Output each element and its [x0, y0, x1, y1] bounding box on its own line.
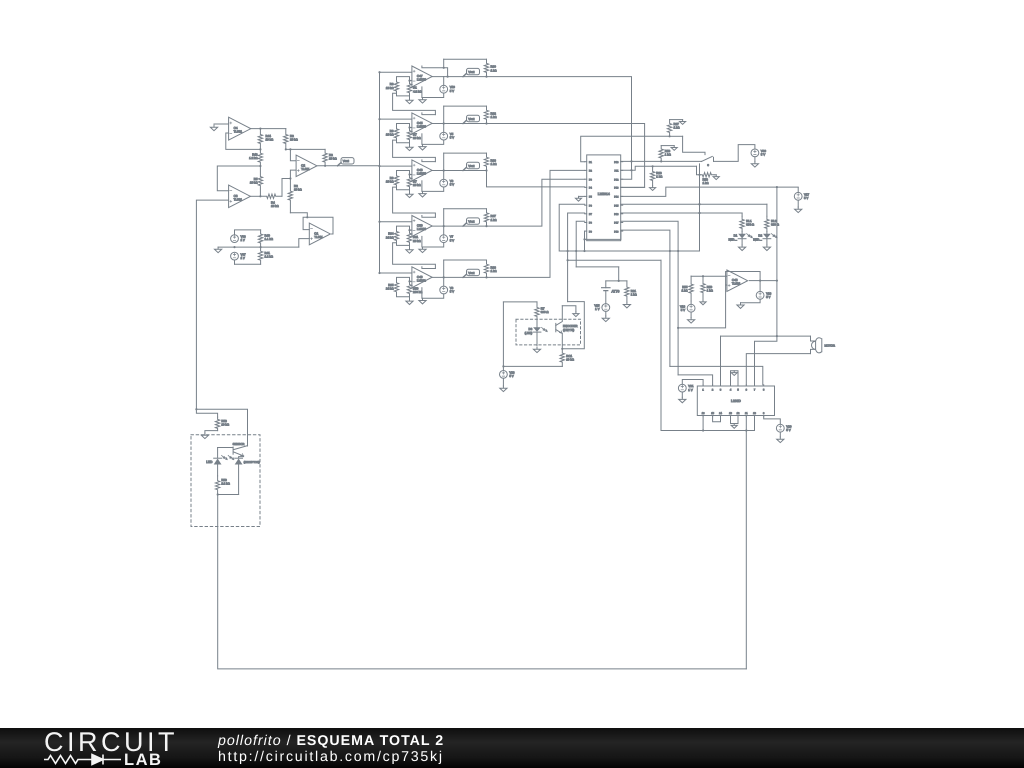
wire O3 + long left wire	[196, 200, 228, 409]
LED D1	[738, 234, 746, 239]
svg-text:10 kΩ: 10 kΩ	[294, 188, 302, 192]
pin B8 stub	[763, 416, 765, 417]
svg-text:NZD…: NZD…	[753, 237, 762, 241]
pin B5 stub	[737, 416, 739, 417]
pin 2L stub	[585, 169, 587, 171]
wire switch to V30	[714, 145, 755, 162]
LED branch RL2	[766, 204, 768, 216]
pin 1R stub	[621, 161, 623, 163]
wire block1 pull-up rail	[444, 58, 487, 60]
wire block5 opamp vee	[421, 288, 423, 299]
wire pin1B	[702, 417, 704, 431]
svg-text:Vout: Vout	[343, 159, 349, 163]
node bus tap 5	[378, 272, 380, 274]
wire pin8R down	[621, 221, 678, 375]
node bus tap 4	[378, 221, 380, 223]
ground collector	[573, 312, 579, 317]
wire pin6T to speaker bottom	[746, 354, 810, 385]
svg-text:1.1 kΩ: 1.1 kΩ	[265, 237, 274, 241]
resistor R5	[258, 166, 262, 196]
node block2 out	[443, 122, 445, 124]
ground V20	[777, 437, 784, 443]
resistor R7	[407, 175, 411, 190]
pin 2R stub	[621, 169, 623, 171]
node sources mid	[233, 246, 235, 248]
resistor R55	[689, 276, 693, 301]
wire V17 riser down to speaker net	[776, 187, 778, 336]
wire block3 - input	[410, 174, 412, 176]
voltage source V21 branch	[682, 380, 703, 385]
wire V20 bottom	[779, 432, 781, 437]
node R28 top	[652, 165, 654, 167]
ground V18	[688, 318, 695, 324]
svg-text:10 kΩ: 10 kΩ	[413, 239, 421, 243]
LED branch RL1	[741, 213, 743, 216]
svg-text:TL081: TL081	[234, 130, 243, 134]
svg-text:24 kΩ: 24 kΩ	[386, 235, 394, 239]
wire collector to ground	[562, 306, 576, 312]
svg-text:Vout: Vout	[468, 117, 474, 121]
svg-text:TL081: TL081	[314, 235, 323, 239]
resistor R3	[323, 149, 327, 165]
wire rail riser	[660, 260, 662, 430]
wire block4 opamp vee	[421, 236, 423, 247]
node block5 minus	[408, 280, 410, 282]
ground D2	[763, 245, 770, 251]
wire O48 - input	[726, 284, 727, 286]
svg-text:(RECEPTOR): (RECEPTOR)	[244, 461, 260, 464]
ground D1	[739, 245, 746, 251]
ground V28	[500, 386, 507, 392]
svg-text:LM339: LM339	[417, 171, 427, 175]
pin T2 stub	[712, 385, 714, 386]
IC U1 LM3914	[587, 155, 621, 241]
svg-text:5 V: 5 V	[450, 290, 454, 294]
pin 8R stub	[621, 222, 623, 224]
ground D3	[533, 347, 540, 353]
svg-text:Vout: Vout	[468, 70, 474, 74]
svg-text:1 kΩ: 1 kΩ	[703, 181, 710, 185]
resistor R9	[394, 127, 398, 140]
wire pin1L top net	[581, 136, 670, 161]
op-amp O50	[412, 216, 432, 237]
wire pin3T up	[720, 336, 722, 385]
op-amp O4	[229, 117, 251, 140]
svg-text:Vout: Vout	[468, 271, 474, 275]
svg-text:1 kΩ: 1 kΩ	[681, 289, 688, 293]
LED D2	[763, 234, 771, 239]
svg-text:5 V: 5 V	[761, 153, 765, 157]
svg-text:5 V: 5 V	[681, 308, 685, 312]
node block4 minus	[408, 229, 410, 231]
wire out2 to IC pin4R	[487, 124, 645, 188]
wire pin9L down	[584, 231, 586, 251]
ground V17	[795, 207, 802, 213]
svg-text:LM3914: LM3914	[598, 192, 610, 196]
wire block1 source bottom	[423, 93, 444, 97]
wire O48 out	[749, 280, 760, 282]
wire emitter to photodiode	[239, 456, 244, 458]
svg-text:P16: P16	[614, 213, 619, 216]
wire block5 to source	[443, 277, 445, 286]
svg-text:1 kΩ: 1 kΩ	[665, 153, 672, 157]
wire bottom rail	[661, 430, 755, 432]
voltage source V16	[756, 291, 764, 299]
wire O4 output	[250, 128, 286, 130]
resistor R2	[288, 179, 292, 213]
svg-text:5 V: 5 V	[450, 238, 454, 242]
ground block5 source	[419, 298, 426, 304]
wire R2 to O1	[290, 213, 307, 218]
pin 6L stub	[585, 204, 587, 206]
wire block1 pullup drop	[443, 59, 445, 68]
resistor R34	[394, 229, 398, 242]
ground pins45T	[731, 371, 737, 376]
svg-text:5 V: 5 V	[450, 89, 454, 93]
ground divider	[215, 247, 222, 253]
svg-text:10 kΩ: 10 kΩ	[221, 423, 229, 427]
wire block2 opamp vee	[421, 134, 423, 145]
wire block1 to source	[443, 77, 445, 86]
svg-text:1 kΩ: 1 kΩ	[491, 68, 498, 72]
voltage source V37	[231, 252, 239, 260]
node V28 top	[502, 365, 504, 367]
speaker SP1	[811, 336, 816, 341]
wire block3 divider top	[397, 171, 410, 175]
pin T5 stub	[737, 385, 739, 386]
svg-text:10 kΩ: 10 kΩ	[250, 181, 258, 185]
wire block2 - input	[410, 127, 412, 129]
voltage source V19	[440, 85, 448, 93]
wire block1 + input	[380, 71, 412, 73]
resistor R11	[407, 230, 411, 245]
wire block2 divider bottom	[397, 140, 410, 145]
node O48 out	[759, 280, 761, 282]
wire block3 pullup drop	[443, 153, 445, 170]
wire block4 source bottom	[423, 243, 444, 247]
pin 7L stub	[585, 213, 587, 215]
battery AT70	[605, 281, 607, 288]
resistor R58h	[700, 173, 715, 177]
resistor R8	[284, 129, 288, 150]
wire block1 divider top	[397, 77, 410, 81]
svg-text:390 Ω: 390 Ω	[746, 223, 755, 227]
resistor R opto	[535, 302, 539, 322]
wire block1 opamp vee	[421, 87, 423, 98]
node R44/R46	[259, 148, 261, 150]
wire base to LED	[217, 448, 219, 458]
flag out3	[463, 167, 467, 170]
wire pin8L down	[576, 221, 585, 267]
wire V30 bottom	[754, 157, 756, 162]
wire V28 riser	[502, 302, 504, 367]
node bus tap 1	[378, 71, 380, 73]
node riser/RL2	[698, 203, 700, 205]
wire out5 to IC pin2L	[487, 170, 585, 277]
svg-text:P14: P14	[614, 196, 619, 199]
svg-text:AT70: AT70	[612, 290, 620, 294]
svg-text:LM311: LM311	[417, 278, 426, 282]
wire O48 + input	[691, 275, 727, 277]
node R8 bottom	[285, 148, 287, 150]
wire block4 top pin jog	[422, 216, 436, 218]
ground R27	[680, 120, 686, 125]
pin 6R stub	[621, 204, 623, 206]
node block4 out	[443, 225, 445, 227]
svg-text:5 V: 5 V	[450, 136, 454, 140]
resistor R32	[484, 106, 488, 123]
ground block1 divider	[406, 98, 413, 104]
op-amp O47	[412, 66, 432, 87]
wire O1 + input	[299, 239, 310, 248]
ground V16	[737, 303, 744, 309]
pin T4 stub	[730, 385, 732, 386]
arrows sensor LED	[222, 455, 225, 458]
resistor R36	[484, 153, 488, 170]
voltage source V38	[231, 235, 239, 243]
wire chain block2 to 3	[393, 140, 436, 162]
resistor R46	[258, 149, 262, 166]
wire block4 pull-up rail	[444, 208, 487, 210]
wire block4 divider bottom	[397, 243, 410, 248]
wire photodiode down	[238, 465, 240, 495]
wire mid to O1 plus	[261, 246, 299, 248]
wire block2 divider top	[397, 124, 410, 128]
svg-text:10 kΩ: 10 kΩ	[329, 157, 337, 161]
resistor RL2	[765, 216, 769, 231]
svg-text:LAB: LAB	[124, 751, 162, 768]
wire right riser	[699, 164, 701, 251]
pin T1 stub	[702, 385, 704, 386]
pin B7 stub	[754, 416, 756, 417]
svg-text:1 kΩ: 1 kΩ	[491, 269, 498, 273]
wire pin6L to right riser	[559, 204, 699, 251]
svg-text:24 kΩ: 24 kΩ	[386, 287, 394, 291]
svg-text:TL081: TL081	[301, 167, 310, 171]
wire O1 feedback loop	[303, 217, 333, 234]
wire O4 feedback	[226, 133, 261, 149]
wire block2 to source	[443, 124, 445, 133]
svg-text:LED: LED	[206, 460, 213, 464]
node R56 bottom	[660, 160, 662, 162]
wire node to R4 riser	[282, 178, 290, 180]
resistor R56	[659, 146, 663, 162]
voltage source V30	[751, 149, 759, 157]
wire pin7B	[754, 417, 756, 431]
ground block3 divider	[406, 192, 413, 198]
flag out5	[463, 274, 467, 277]
wire out3 to IC pin4L	[487, 171, 585, 187]
op-amp O46	[412, 160, 432, 181]
pin 5L stub	[585, 195, 587, 197]
LED emitter in sensor	[214, 457, 222, 459]
node out1 join	[630, 160, 632, 162]
wire pin1R to switch	[621, 160, 702, 162]
svg-text:1 kΩ: 1 kΩ	[674, 126, 681, 130]
node block5 output/resistor	[485, 276, 487, 278]
ground V21	[679, 397, 686, 403]
node block2 output/resistor	[485, 122, 487, 124]
LED D3 in encoder	[533, 327, 541, 332]
wire block3 to source	[443, 171, 445, 180]
flag out1	[463, 73, 467, 76]
ground R59	[700, 300, 706, 305]
wire pin5R to V17 line	[621, 187, 799, 196]
resistor R27	[667, 120, 671, 137]
wire AT70 feed line	[576, 266, 619, 268]
svg-text:(CNY70): (CNY70)	[563, 328, 574, 332]
sensor dashed box	[191, 435, 260, 527]
node speaker net tap	[776, 186, 778, 188]
wire block5 - input	[410, 280, 412, 282]
svg-text:4.2 kΩ: 4.2 kΩ	[413, 89, 422, 93]
resistor R59v	[215, 476, 219, 495]
svg-text:pollofrito / ESQUEMA TOTAL 2: pollofrito / ESQUEMA TOTAL 2	[217, 733, 444, 749]
wire block4 + input	[380, 221, 412, 223]
svg-text:1.2 kΩ: 1.2 kΩ	[265, 255, 274, 259]
wire R56 top	[661, 145, 674, 147]
wire block3 source bottom	[423, 187, 444, 191]
node bus tap 3	[378, 165, 380, 167]
svg-text:MOTOR: MOTOR	[825, 343, 835, 347]
wire wrap under IC	[585, 231, 621, 239]
svg-text:1 kΩ: 1 kΩ	[491, 162, 498, 166]
wire pin4R	[621, 186, 645, 188]
wire R58h to ground	[714, 174, 716, 176]
node plus-bus vertical	[379, 72, 381, 273]
node emitter/RC1	[561, 348, 563, 350]
svg-text:P18: P18	[614, 230, 619, 233]
svg-text:P17: P17	[614, 222, 619, 225]
ground at O4 + input	[210, 125, 217, 131]
svg-text:10 kΩ: 10 kΩ	[413, 136, 421, 140]
node R40/R41	[260, 246, 262, 248]
op-amp O48	[727, 270, 748, 291]
node left wire split	[195, 408, 197, 410]
svg-text:10 kΩ: 10 kΩ	[386, 180, 394, 184]
resistor R35	[394, 281, 398, 294]
node O3 out	[259, 195, 261, 197]
wire long bottom loop	[218, 495, 747, 669]
wire O2 + input	[290, 170, 296, 178]
ground V30	[751, 162, 758, 168]
svg-text:390 Ω: 390 Ω	[771, 223, 780, 227]
wire block2 output	[432, 123, 486, 125]
wire pin7R to RL1	[621, 212, 742, 214]
encoder dashed box	[516, 319, 581, 345]
wire O4 + input	[214, 123, 229, 125]
wire V21 bottom	[681, 392, 683, 397]
svg-text:5 V: 5 V	[804, 196, 808, 200]
wire chain block3 to 4	[393, 187, 436, 217]
pin 7R stub	[621, 213, 623, 215]
svg-text:10 kΩ: 10 kΩ	[413, 183, 421, 187]
flag out4	[463, 223, 467, 226]
resistor R30	[484, 59, 488, 76]
wire O48 out to net	[760, 280, 777, 282]
wire encoder outer collector net	[562, 302, 584, 349]
node on pin8R net	[677, 327, 679, 329]
svg-text:SENSOR: SENSOR	[233, 442, 245, 446]
wire block5 top pin jog	[422, 267, 436, 269]
wire block3 output	[432, 170, 486, 172]
ground block5 divider	[406, 299, 413, 305]
node AT70	[618, 280, 620, 282]
wire block2 pull-up rail	[444, 105, 487, 107]
wire block2 source bottom	[423, 140, 444, 144]
wire to sensor collector	[196, 409, 247, 446]
photodiode receiver	[235, 457, 243, 459]
wire O3 output	[250, 195, 260, 197]
node R46/R5	[259, 165, 261, 167]
wire V28 bottom	[502, 378, 504, 386]
pin B3 stub	[720, 416, 722, 417]
wire top to R opto	[503, 301, 537, 303]
wire R58v to ground	[205, 431, 218, 433]
wire pin7L down to encoder	[568, 213, 585, 302]
voltage source V8	[440, 286, 448, 294]
wire block2 + input	[380, 118, 412, 120]
arrows D2	[772, 234, 775, 237]
wire pin2T net	[678, 375, 713, 385]
wire block1 divider bottom	[397, 93, 410, 98]
voltage source V28	[500, 371, 508, 379]
resistor R40	[258, 230, 262, 247]
svg-text:http://circuitlab.com/cp735kj: http://circuitlab.com/cp735kj	[218, 749, 444, 765]
wire base	[218, 447, 234, 449]
voltage source V17 branch	[797, 187, 799, 192]
wire block4 output	[432, 225, 486, 227]
node pin6R riser	[698, 203, 700, 205]
voltage source V17	[794, 192, 802, 200]
node V17 riser join	[776, 335, 778, 337]
wire pin6R to RL2	[621, 203, 767, 205]
resistor R37	[484, 209, 488, 226]
op-amp O49	[412, 267, 432, 288]
svg-text:1 kΩ: 1 kΩ	[491, 115, 498, 119]
node O2 plus divider	[289, 177, 291, 179]
wire block5 + input	[380, 272, 412, 274]
wire out4 to IC pin3L	[487, 179, 585, 226]
wire block3 opamp vee	[421, 181, 423, 192]
arrows receiver	[228, 455, 231, 458]
pin 5R stub	[621, 195, 623, 197]
node R3/out	[324, 165, 326, 167]
wire V15 bottom	[605, 311, 607, 316]
node wrap tap	[583, 238, 585, 240]
wire pins2,3B bridge	[713, 417, 721, 422]
resistor R59	[701, 276, 705, 300]
node O48/V17 net	[776, 280, 778, 282]
op-amp O45	[412, 113, 432, 134]
wire pin2R jog	[621, 166, 697, 170]
pin T7 stub	[754, 385, 756, 386]
resistor R7	[407, 128, 411, 143]
wire R27 top	[670, 119, 683, 121]
node block2 minus	[408, 126, 410, 128]
wire block3 pull-up rail	[444, 152, 487, 154]
arrows D1	[747, 234, 750, 237]
wire block1 output	[432, 76, 486, 78]
svg-text:1 V: 1 V	[595, 307, 599, 311]
node bottom loop	[217, 493, 219, 495]
wire V37 bottom	[234, 260, 236, 264]
node block1 jog	[443, 67, 445, 69]
svg-text:5 V: 5 V	[786, 428, 790, 432]
wire V16 bottom	[741, 299, 761, 303]
flag out2	[463, 120, 467, 123]
svg-text:1 V: 1 V	[241, 256, 245, 260]
